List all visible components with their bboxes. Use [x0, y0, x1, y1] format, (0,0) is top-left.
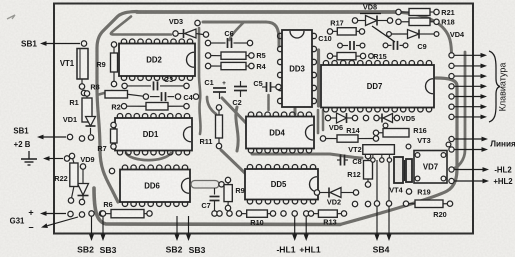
wire trace right of DD4 second vertical [322, 110, 325, 130]
pad G31 plus [68, 211, 73, 216]
capacitor C3 row [122, 83, 127, 88]
pad ground [64, 156, 69, 161]
IC DD6 [120, 165, 190, 207]
pad SB1 top [81, 41, 86, 46]
capacitor C7 [214, 188, 216, 195]
wire trace top-right corner to keyboard pads [396, 12, 452, 55]
resistor R2 upper [105, 91, 149, 100]
diode VD6 [325, 115, 330, 120]
pad right of DD6 pill [219, 182, 224, 187]
resistor R21 [396, 9, 439, 16]
wire trace left of C1 vertical [199, 28, 201, 134]
wire trace S-curve left of DD4 [236, 107, 238, 151]
node SB3 left arrow [102, 216, 104, 234]
resistor R9 near DD5 [224, 177, 232, 210]
diode VD1 [90, 128, 92, 134]
pads row under DD5 [217, 211, 222, 216]
wire VD8 to C9 diagonal [372, 26, 395, 42]
node SB2 mid arrow [176, 216, 178, 234]
node -HL1 arrow [294, 216, 296, 234]
resistor R11 [216, 105, 223, 149]
wire trace diagonal DD1 to DD4 gap lower [221, 150, 248, 176]
diode VD5 [363, 115, 368, 120]
wire trace DD3 bottom to DD4 [294, 108, 297, 114]
resistor R7 [111, 122, 118, 149]
resistor R12 [364, 153, 373, 187]
IC DD7 [321, 61, 434, 113]
wire trace branch to C6 [230, 22, 245, 40]
IC DD3 [278, 30, 317, 107]
resistor R18 [396, 18, 439, 26]
wire trace inner corner to VD3 [111, 17, 171, 35]
node SB2 left arrow [91, 216, 93, 234]
pads SB2 SB3 left pair [89, 211, 94, 216]
keyboard brace [489, 51, 500, 122]
resistor R1 [82, 91, 92, 122]
ground symbol and arrow [50, 158, 64, 160]
diode VD4 [387, 32, 392, 37]
wire trace U loop under DD1 [126, 153, 171, 160]
node SB1 top arrow [47, 43, 81, 45]
node +HL1 arrow [305, 216, 307, 234]
wire trace below C5 [267, 95, 270, 110]
wire trace top horizontal bus [137, 10, 396, 14]
wire trace left descent from top bus [97, 12, 137, 203]
resistor R19 pad and label [406, 189, 411, 194]
resistor R22 [68, 153, 78, 203]
pad left of VD1 [79, 136, 84, 141]
resistor R2 [121, 103, 189, 111]
capacitor C9 [383, 43, 388, 48]
transistor VT1 [79, 84, 84, 89]
IC DD2 [119, 39, 195, 81]
pads near VD7 [406, 144, 411, 149]
wire trace second top run from VD3 pad [203, 22, 279, 46]
wire trace mid-left wiggle near R2 [97, 91, 112, 95]
capacitor C2 [234, 86, 247, 88]
pads HL1 [292, 211, 297, 216]
capacitor C8 [340, 155, 342, 166]
wire trace diagonal DD1 to DD4 gap upper [222, 98, 246, 123]
resistor R14 [320, 135, 378, 142]
node G31 plus arrow [47, 213, 67, 215]
wire trace vertical above R11 [207, 97, 216, 114]
thick pill trace DD6 notch to pad [191, 181, 219, 189]
pad DD6 upper-left [109, 168, 114, 173]
resistor R10 [236, 210, 275, 217]
resistor R16 [373, 129, 409, 138]
node SB4 arrows [376, 160, 378, 234]
node +HL2 arrow [454, 180, 483, 182]
resistor R15 [327, 53, 365, 60]
wire trace below DD4 to VT2 [252, 154, 362, 158]
wire trace right of DD3 down to DD7 [317, 50, 320, 106]
diode VD2 [314, 190, 319, 195]
resistor R8 pad and label [81, 90, 86, 95]
pad SB1 mid [67, 134, 72, 139]
resistor R9 top-left [111, 42, 118, 87]
node G31 minus arrow [47, 217, 78, 226]
wire trace right of DD4 vertical [317, 110, 320, 133]
pads SB4 top [374, 201, 379, 206]
capacitor C4 [150, 96, 160, 98]
optocoupler VD7 [414, 151, 447, 184]
board outline [54, 4, 473, 234]
resistor R13 [308, 210, 346, 217]
resistor R20 [403, 200, 452, 208]
IC DD1 [115, 114, 192, 156]
node Linia arrows [454, 138, 482, 140]
wire trace right edge second vertical [452, 52, 465, 169]
resistor R5 [205, 52, 254, 59]
resistor R4 [205, 62, 254, 69]
wire trace bottom horizontal bus [94, 188, 340, 225]
pad G31 minus [79, 212, 84, 217]
wire trace diagonal bottom-right to right edge [340, 78, 457, 225]
node SB3 mid arrow [188, 216, 190, 234]
IC DD5 [245, 165, 318, 205]
resistor R6 [99, 210, 152, 218]
keyboard pads and arrows [454, 54, 481, 56]
IC DD4 [246, 112, 314, 153]
pencil mark top-left margin [7, 15, 15, 19]
node SB1 +2V arrow [44, 136, 67, 138]
pads left of SB4 [352, 201, 357, 206]
transistor VT3 body [394, 157, 403, 183]
node -HL2 arrow [454, 169, 483, 171]
